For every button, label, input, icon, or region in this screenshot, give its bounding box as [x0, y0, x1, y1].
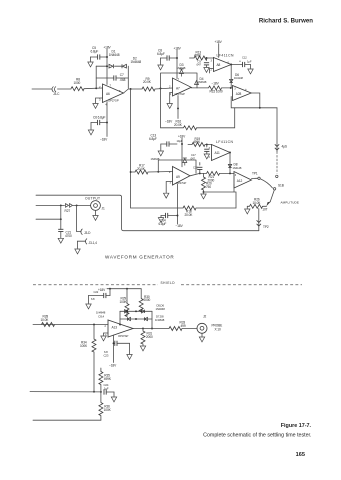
svg-text:OP37AP: OP37AP: [118, 334, 129, 338]
svg-text:100K: 100K: [80, 344, 88, 348]
svg-text:A28: A28: [236, 92, 242, 96]
op-amp A7 OP27GP: [169, 77, 191, 96]
resistor R28: [41, 314, 55, 326]
label diodes D3 D4: [96, 311, 106, 319]
resistor R20 to ground: [202, 173, 212, 193]
wire row2 bottom rail: [131, 207, 236, 209]
svg-text:Figure 17-7.: Figure 17-7.: [281, 423, 312, 429]
ground for C8: [158, 65, 163, 70]
svg-text:.1μF: .1μF: [103, 386, 109, 390]
resistor R15: [209, 86, 223, 94]
node D6 rail: [230, 87, 232, 89]
svg-text:C7: C7: [120, 73, 124, 77]
svg-text:3: 3: [211, 59, 213, 62]
svg-text:2000: 2000: [144, 298, 151, 302]
node A8 out: [230, 64, 232, 66]
wire A8 output: [231, 64, 242, 66]
capacitor C23 stub: [104, 341, 130, 358]
ground pot left: [245, 206, 250, 214]
ground R32: [140, 346, 145, 351]
svg-text:D8: D8: [234, 163, 238, 167]
wire down to switch S1B: [276, 108, 278, 152]
wire bottom rail: [33, 419, 101, 421]
node rail at D8: [229, 172, 231, 174]
ground A6 pin3: [93, 104, 98, 109]
wire row2 rail: [190, 173, 234, 175]
resistor R16 zig: [184, 126, 197, 130]
capacitor C7: [114, 73, 126, 82]
capacitor C9 with ground: [196, 57, 209, 67]
label diodes D7 D8: [155, 314, 165, 321]
svg-text:OUTPUT: OUTPUT: [85, 196, 100, 200]
capacitor C22 bypass: [89, 289, 111, 304]
capacitor C13 bypass: [149, 134, 177, 151]
svg-text:−18V: −18V: [212, 82, 220, 86]
svg-text:.047: .047: [190, 156, 195, 160]
diode D4 with -18V: [195, 77, 220, 86]
svg-text:OP27GP: OP27GP: [108, 98, 119, 102]
svg-text:3: 3: [234, 87, 236, 90]
svg-text:SHIELD: SHIELD: [161, 281, 176, 285]
resistor R9: [142, 77, 155, 91]
wire A9 pin4 down: [177, 184, 179, 224]
svg-text:R15 1000: R15 1000: [210, 90, 223, 94]
svg-text:J3-1,4: J3-1,4: [89, 241, 98, 245]
wire R17 to A9: [148, 171, 173, 174]
ground C17: [204, 154, 209, 159]
capacitor C16 stub: [193, 163, 202, 174]
resistor R13: [190, 50, 208, 60]
ground for C6: [88, 123, 93, 135]
svg-text:A7: A7: [176, 86, 180, 90]
ground C21: [58, 238, 63, 243]
node A6 out: [130, 88, 132, 90]
wire row1 rail to R15: [191, 87, 208, 89]
wire pot right to S1B: [270, 190, 274, 202]
wire row1-row2 link R16: [161, 89, 235, 128]
svg-text:TP1: TP1: [252, 172, 258, 176]
svg-text:6.8μF: 6.8μF: [157, 52, 165, 56]
op-amp A13 OP37AP: [105, 320, 134, 338]
wire A13 pin4 down: [113, 335, 115, 362]
svg-text:+18V: +18V: [174, 47, 182, 51]
wire A7 pin3 ground stub: [170, 93, 173, 104]
shield dashed line: [33, 281, 302, 285]
svg-text:1000: 1000: [74, 81, 81, 85]
resistor R32 to ground: [141, 328, 153, 346]
+18V supply to A9 pin7: [178, 135, 186, 167]
node mid rail: [93, 391, 102, 393]
diode pair small: [65, 204, 73, 214]
wire A6 output node: [124, 89, 143, 93]
diode D8: [228, 163, 242, 170]
svg-text:2: 2: [99, 85, 101, 89]
svg-text:−18V: −18V: [109, 363, 117, 367]
svg-text:1N4648: 1N4648: [151, 157, 160, 161]
label probe: [212, 323, 223, 331]
svg-text:A12: A12: [237, 179, 243, 183]
ground for C5: [88, 62, 93, 67]
svg-text:6.8μF: 6.8μF: [159, 222, 167, 226]
resistor R8: [71, 78, 84, 91]
connector J3-C: [52, 87, 60, 97]
resistor R36: [99, 392, 112, 420]
ground for C14: [158, 216, 163, 223]
svg-text:AMPLITUDE: AMPLITUDE: [281, 201, 300, 205]
resistor R34 chain vertical: [80, 325, 96, 392]
connector J2: [197, 315, 207, 334]
op-amp A9 OP27GP: [169, 167, 190, 186]
op-amp A11 LF411CN: [209, 140, 234, 160]
svg-text:7: 7: [178, 77, 180, 81]
stub J3-1 with ground: [75, 239, 97, 254]
wire third rail: [36, 205, 62, 229]
svg-text:6.8μF: 6.8μF: [149, 137, 157, 141]
svg-text:100K: 100K: [120, 300, 128, 304]
node rail: [199, 172, 201, 174]
svg-text:J1: J1: [102, 206, 105, 210]
+18V supply A8: [215, 40, 223, 58]
svg-text:6: 6: [119, 89, 121, 93]
svg-text:2: 2: [211, 69, 213, 72]
diode D2: [122, 56, 141, 68]
node input A6: [95, 87, 97, 89]
wire output rail J1: [36, 204, 65, 206]
svg-text:C12: C12: [242, 55, 247, 59]
node R31 tap: [93, 324, 95, 326]
svg-text:A8: A8: [217, 63, 221, 67]
op-amp A8 LF411CN: [211, 53, 235, 71]
wire pot wiper down: [258, 209, 260, 231]
svg-text:J3-C: J3-C: [53, 92, 60, 96]
capacitor C14: [159, 213, 179, 226]
svg-text:20.0K: 20.0K: [185, 213, 194, 217]
resistor R29: [120, 289, 130, 317]
diode D7: [151, 157, 187, 166]
svg-text:3: 3: [209, 147, 211, 150]
svg-text:10T: 10T: [262, 208, 267, 212]
ground A7 pin3: [167, 104, 172, 109]
svg-text:1N4648: 1N4648: [198, 80, 207, 84]
svg-text:4700: 4700: [65, 234, 72, 238]
wire D8 vertical: [229, 153, 231, 174]
svg-text:499K: 499K: [104, 377, 112, 381]
diode row lower: [120, 317, 152, 320]
capacitor C12 electrolytic: [239, 55, 252, 68]
node A7 input: [160, 87, 162, 89]
svg-text:2000: 2000: [146, 335, 153, 339]
svg-text:−18V: −18V: [165, 119, 173, 123]
wire inner feedback: [96, 78, 128, 88]
svg-text:3: 3: [170, 180, 172, 184]
op-amp A6 OP27GP: [99, 83, 124, 106]
ground J1: [93, 210, 98, 220]
ground C23: [127, 355, 132, 360]
wire A7 feedback loop: [161, 73, 198, 88]
svg-text:20.0K: 20.0K: [174, 123, 183, 127]
wire to A6 input: [84, 87, 103, 90]
svg-text:4μS: 4μS: [282, 145, 287, 149]
resistor R33: [169, 320, 186, 330]
wire D6 vertical from A8 out: [230, 65, 232, 88]
svg-text:1N4648: 1N4648: [156, 307, 166, 311]
wire A12 feedback: [204, 185, 237, 209]
wire A28 feedback bottom rail: [231, 97, 277, 108]
svg-text:+18V: +18V: [98, 288, 106, 292]
wire: [58, 88, 72, 90]
svg-text:20.0K: 20.0K: [143, 80, 152, 84]
svg-text:499K: 499K: [194, 54, 202, 58]
node A9 input: [157, 171, 159, 173]
node J3 stub: [76, 204, 78, 206]
svg-text:X 10: X 10: [215, 328, 221, 332]
wire to J2: [182, 328, 197, 330]
wire clamp verticals: [120, 311, 152, 328]
capacitor C8 bypass: [157, 49, 177, 65]
node clamp: [119, 324, 153, 330]
svg-text:LF411CN: LF411CN: [217, 53, 235, 57]
svg-text:10μF: 10μF: [177, 139, 183, 143]
svg-text:499K: 499K: [193, 140, 201, 144]
wire R15 to A28: [222, 87, 233, 89]
wire R19 to A11: [205, 144, 212, 146]
ground C24: [111, 397, 116, 402]
svg-text:J2: J2: [203, 315, 206, 319]
svg-text:Complete schematic of the sett: Complete schematic of the settling time …: [203, 433, 311, 439]
diode row upper: [120, 310, 152, 313]
svg-text:.068: .068: [120, 78, 126, 82]
svg-text:20.0K: 20.0K: [137, 167, 146, 171]
wire A28 output to corner: [251, 93, 260, 108]
resistor R35: [99, 368, 112, 392]
svg-text:OP27GP: OP27GP: [175, 92, 185, 96]
svg-text:165: 165: [296, 452, 305, 458]
svg-text:C16: C16: [193, 166, 198, 170]
node R17 tap: [130, 171, 132, 173]
svg-text:C22: C22: [94, 290, 99, 294]
svg-text:WAVEFORM GENERATOR: WAVEFORM GENERATOR: [105, 254, 174, 259]
+18V rail: [98, 288, 141, 299]
potentiometer R26: [250, 197, 268, 211]
capacitor C6: [91, 115, 108, 125]
svg-text:2: 2: [209, 156, 211, 159]
svg-text:100K: 100K: [104, 408, 112, 412]
wire A9 feedback loop: [158, 160, 196, 173]
wire A12 output: [252, 177, 258, 179]
switch S1A contact: [258, 177, 273, 188]
node feedback: [259, 107, 261, 109]
chevron test point 4uS: [275, 144, 287, 150]
capacitor C17 with ground: [190, 144, 209, 161]
svg-text:1N4648: 1N4648: [155, 318, 165, 322]
diode D3: [177, 63, 186, 76]
svg-text:A13: A13: [112, 326, 118, 330]
wire input rail from connector J3-C: [32, 88, 52, 90]
svg-text:C6 6.8μF: C6 6.8μF: [93, 115, 106, 119]
svg-text:.047: .047: [196, 63, 201, 67]
wire R13 to A8 input: [207, 57, 214, 59]
svg-text:A11: A11: [215, 151, 220, 155]
svg-text:499: 499: [181, 324, 186, 328]
wire output rail: [133, 328, 169, 330]
capacitor C21: [58, 229, 72, 238]
ground C12: [248, 69, 253, 74]
wire A8 lower input stub: [210, 69, 214, 74]
capacitor C5 bypass: [91, 46, 108, 62]
node: [60, 204, 62, 206]
svg-text:−18V: −18V: [100, 137, 108, 141]
ground R20: [201, 192, 206, 199]
wire feedback top rail: [96, 66, 128, 78]
op-amp A28 buffer: [233, 86, 252, 101]
svg-text:D6: D6: [235, 73, 239, 77]
svg-text:S1B: S1B: [278, 183, 284, 187]
svg-text:A6: A6: [106, 92, 110, 96]
svg-text:3: 3: [235, 174, 237, 177]
wire feedback left vertical: [95, 66, 97, 88]
svg-text:−18V: −18V: [176, 224, 184, 228]
svg-text:1N4148: 1N4148: [233, 166, 242, 170]
svg-text:6.8μF: 6.8μF: [91, 49, 99, 53]
chevron test point TP2: [257, 220, 269, 229]
resistor R22: [183, 206, 196, 217]
svg-text:LF411CN: LF411CN: [216, 140, 234, 144]
resistor R30: [139, 295, 150, 312]
+18V supply to A6 pin7: [103, 45, 111, 84]
svg-text:2: 2: [169, 170, 171, 174]
svg-text:1N4648: 1N4648: [131, 60, 142, 64]
svg-text:+: +: [245, 88, 247, 92]
wire to J1: [73, 204, 91, 206]
wire mid rail: [30, 391, 101, 393]
svg-text:10.0K: 10.0K: [41, 318, 50, 322]
svg-text:+: +: [239, 59, 241, 63]
ground for C13: [158, 151, 163, 156]
label R16: [165, 119, 183, 126]
svg-text:10.0K: 10.0K: [253, 201, 262, 205]
svg-text:1μF: 1μF: [247, 59, 252, 63]
wire A11 output: [229, 152, 231, 154]
resistor R17: [131, 163, 148, 174]
wire A6 pin4 down: [106, 102, 108, 137]
wire A13 pin3 stub ground: [101, 333, 108, 341]
svg-text:1N4648: 1N4648: [109, 53, 120, 57]
svg-text:D3,4: D3,4: [99, 314, 105, 318]
wire pin3 to ground: [96, 98, 103, 103]
svg-text:2: 2: [105, 325, 107, 328]
wire A9 pin3 ground stub: [166, 182, 172, 193]
op-amp A12 buffer: [234, 172, 252, 189]
ground A9 pin3: [164, 193, 169, 198]
ground C22: [86, 304, 91, 309]
svg-text:7: 7: [110, 83, 112, 87]
resistor R21: [207, 171, 220, 182]
label diodes D5 D6: [156, 303, 166, 310]
svg-text:1N4148: 1N4148: [234, 76, 243, 80]
svg-text:1N4648: 1N4648: [177, 66, 186, 70]
wire input rail: [33, 324, 108, 326]
wire R9 to A7: [155, 88, 173, 89]
diode D6: [230, 73, 244, 83]
+18V supply to A7 pin7: [174, 47, 182, 79]
svg-text:C23: C23: [104, 353, 109, 357]
stub J3-D: [77, 205, 92, 235]
wire long vertical A6 out to row2: [130, 89, 132, 208]
svg-text:+18V: +18V: [103, 45, 111, 49]
svg-text:R27: R27: [65, 209, 71, 213]
svg-text:J3-D: J3-D: [84, 231, 91, 235]
wire A7 pin4 down: [177, 96, 179, 119]
svg-text:6.8: 6.8: [91, 297, 95, 301]
resistor R19: [177, 137, 206, 147]
ground C9: [204, 68, 209, 73]
capacitor C24: [103, 383, 114, 397]
ground J2: [199, 333, 204, 342]
svg-text:TP2: TP2: [263, 225, 269, 229]
svg-text:A9: A9: [176, 175, 180, 179]
svg-text:750: 750: [206, 185, 211, 189]
connector J1 OUTPUT: [85, 196, 105, 210]
svg-text:Richard S. Burwen: Richard S. Burwen: [259, 18, 313, 25]
diode D1: [109, 50, 120, 69]
switch S1B contacts: [273, 175, 283, 190]
wire output bus top: [36, 195, 259, 231]
